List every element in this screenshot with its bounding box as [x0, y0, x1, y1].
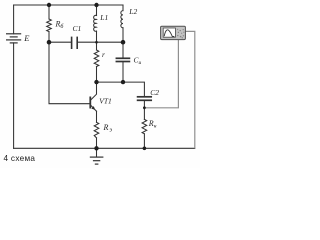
wire scope right lead	[185, 31, 195, 148]
svg-text:C1: C1	[73, 24, 82, 33]
inductor L1	[94, 5, 97, 50]
node collector	[94, 80, 98, 84]
node Rб top	[47, 3, 51, 7]
wire top rail	[14, 4, 123, 6]
battery E	[7, 34, 21, 43]
svg-text:Cи: Cи	[134, 55, 142, 66]
node emitter/ground	[94, 146, 98, 150]
svg-text:L2: L2	[128, 7, 137, 16]
svg-text:Rэ: Rэ	[103, 123, 113, 134]
wire collector node to C2 branch	[97, 82, 145, 96]
wire left rail upper (battery top lead)	[13, 5, 15, 34]
svg-text:Rн: Rн	[148, 119, 157, 130]
svg-text:Rб: Rб	[55, 20, 65, 31]
svg-text:r: r	[102, 50, 105, 59]
node L1-r crossing	[95, 41, 98, 44]
wire C1 right to L2 branch	[77, 41, 123, 43]
node C2/Rн	[143, 106, 146, 109]
resistor R6 (Rб)	[47, 5, 52, 42]
node Cи bottom	[121, 80, 125, 84]
oscilloscope leads (gray)	[145, 31, 195, 148]
wire node Rб bottom to C1	[49, 41, 72, 43]
resistor Rн	[142, 108, 147, 149]
node Rб/C1	[47, 40, 52, 45]
wire Rб node down to base	[49, 42, 90, 103]
resistor r	[94, 50, 99, 82]
transistor emitter arrow	[91, 106, 95, 110]
svg-text:4 схема: 4 схема	[4, 154, 36, 163]
svg-text:C2: C2	[150, 88, 159, 97]
capacitor C1	[72, 37, 78, 48]
node Rн bottom	[143, 147, 147, 151]
svg-text:VT1: VT1	[99, 96, 112, 105]
resistor Rэ (emitter)	[94, 111, 99, 148]
inductor L2	[121, 5, 123, 42]
node L1 top	[94, 3, 98, 7]
svg-text:E: E	[23, 33, 30, 43]
junction dots	[47, 3, 147, 151]
wire bottom rail	[14, 147, 195, 149]
capacitor Cи	[116, 42, 129, 82]
node L2/Cи	[121, 40, 126, 45]
capacitor C2	[138, 97, 152, 108]
ground	[90, 148, 102, 164]
transistor VT1	[90, 82, 96, 111]
wire left rail lower (battery bottom lead to bottom rail)	[13, 43, 15, 148]
oscilloscope U1	[161, 26, 186, 39]
wire scope bottom lead	[145, 40, 179, 108]
svg-text:L1: L1	[99, 13, 108, 22]
